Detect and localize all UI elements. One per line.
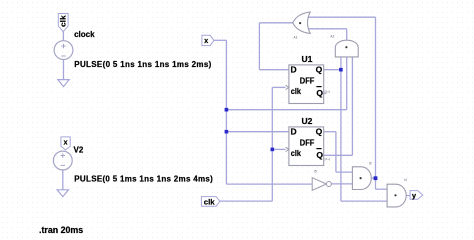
wire W28 I3 output	[371, 177, 375, 179]
svg-text:.tran 20ms: .tran 20ms	[39, 225, 83, 235]
Qbar stub U1	[324, 92, 327, 94]
flag y (output)	[410, 191, 423, 201]
wire W24 to I4 upper input	[376, 188, 388, 190]
svg-text:PULSE(0 5 1ns 1ns 1ns 1ms 2ms): PULSE(0 5 1ns 1ns 1ns 1ms 2ms)	[74, 60, 211, 69]
wire W15 U1.Q vertical A2 input down to I4 row	[340, 57, 342, 201]
wire W13 to U1 D	[259, 69, 289, 71]
clk wedge U1	[286, 85, 289, 89]
svg-text:A1: A1	[293, 35, 297, 39]
svg-text:x: x	[64, 139, 68, 146]
voltage source clock	[54, 41, 73, 60]
voltage source V2	[53, 151, 72, 170]
and-gate I4	[387, 178, 407, 207]
svg-text:Q: Q	[316, 65, 323, 75]
dff U1	[286, 65, 330, 104]
wire W8 clk vertical	[271, 87, 273, 201]
wire W29 I4 output	[406, 195, 410, 197]
wire W32 V2 source to ground	[62, 170, 64, 190]
wire W16 to I4 lower input	[341, 200, 387, 202]
or-gate A1 (pointing left)	[293, 12, 311, 39]
wire W5 x-net to U2 D	[226, 131, 289, 133]
clk wedge U2	[286, 147, 289, 151]
svg-text:Q: Q	[316, 127, 323, 137]
wire W25 OR bottom input	[308, 28, 347, 30]
svg-text:I3: I3	[369, 162, 372, 166]
svg-text:D: D	[291, 127, 297, 137]
svg-text:x: x	[204, 38, 208, 45]
wire W19 to I3 upper input	[336, 171, 353, 173]
wire W17 U2 Q out	[324, 131, 336, 133]
svg-text:I5: I5	[314, 170, 317, 174]
svg-text:DFF: DFF	[300, 138, 315, 147]
svg-text:clk: clk	[291, 148, 301, 158]
junction dot I3 output node	[374, 176, 378, 180]
svg-text:[5+]: [5+]	[325, 90, 330, 94]
wire W31 clock source to ground	[63, 60, 65, 80]
wire W12 vertical down to U1 D level	[258, 23, 260, 70]
wire W14 U1 Q out	[324, 69, 341, 71]
junction dot x/A2 branch	[225, 108, 229, 112]
flag clk (top, rotated)	[58, 14, 68, 32]
svg-text:Q: Q	[316, 88, 323, 98]
flag x (net label, top middle)	[202, 35, 214, 45]
svg-text:I4: I4	[404, 178, 407, 182]
inverter I5	[312, 170, 331, 191]
dff U2	[286, 127, 330, 166]
junction dot U1.Q branch	[339, 68, 343, 72]
and-gate A2 (pointing up)	[330, 35, 358, 57]
svg-text:DFF: DFF	[300, 76, 315, 85]
svg-text:U1: U1	[302, 54, 313, 64]
wire W21 U2.Qbar vertical to A2 right input	[351, 57, 353, 155]
svg-text:PULSE(0 5 1ms 1ns 1ns 2ms 4ms): PULSE(0 5 1ms 1ns 1ns 2ms 4ms)	[74, 175, 213, 184]
ground (clock)	[58, 80, 69, 87]
junction dot clk/U2.clk branch	[271, 148, 275, 152]
svg-text:clock: clock	[74, 30, 95, 39]
svg-text:[4+]: [4+]	[325, 157, 330, 161]
svg-text:clk: clk	[291, 86, 301, 96]
wire W3 x-net branch to A2 middle input	[226, 109, 346, 111]
wire W26 A2 output stub	[346, 29, 348, 40]
wire W1 x-flag to corner	[214, 39, 227, 41]
and-gate I3	[352, 162, 371, 190]
wire W30 clk flag stub above clock source	[62, 32, 64, 41]
junction dot x/U2.D branch	[225, 130, 229, 134]
wire W11 OR output left	[259, 22, 293, 24]
wire W10 clk to U2 clk	[272, 148, 285, 150]
wire W18 U2.Q vertical	[335, 132, 337, 172]
svg-text:D: D	[291, 65, 297, 75]
wire W7 clk flag to corner	[220, 200, 272, 202]
flag clk (net label, bottom middle)	[201, 197, 220, 207]
wire W27 inverter output to I3 lower input	[331, 183, 352, 185]
wire W4 vertical up to A2	[346, 57, 348, 110]
svg-text:U2: U2	[302, 116, 313, 126]
wire W2 x-net vertical	[225, 40, 227, 184]
flag x (on V2)	[61, 137, 70, 150]
svg-text:V2: V2	[74, 146, 84, 155]
wire W20 U2 Qbar out	[324, 154, 353, 156]
svg-text:clk: clk	[204, 197, 216, 206]
svg-text:Q: Q	[316, 150, 323, 160]
wire W22 OR top input feedback	[308, 16, 376, 18]
wire W23 feedback vertical	[375, 17, 377, 189]
svg-text:A2: A2	[330, 35, 334, 39]
svg-text:clk: clk	[59, 15, 68, 27]
wire W6 x-net to inverter input	[226, 183, 312, 185]
wire W9 clk to U1 clk	[272, 86, 285, 88]
ground (V2)	[57, 190, 68, 197]
